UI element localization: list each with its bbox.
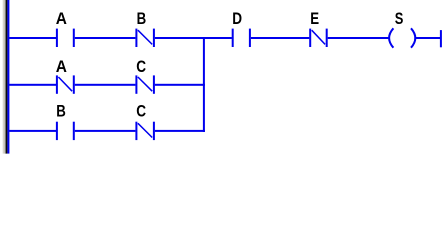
contact A (normally closed) rung2 [56, 57, 75, 94]
left frame light edge [3, 0, 5, 154]
wire rung1 rail to contact A [9, 37, 56, 39]
svg-text:C: C [136, 57, 146, 76]
right power rail stub [440, 30, 442, 47]
wire contact A to contact C rung2 [75, 84, 136, 86]
svg-text:S: S [395, 9, 404, 28]
wire contact A to contact B rung1 [75, 37, 136, 39]
wire contact D to contact E rung1 [251, 37, 309, 39]
contact A (normally open) rung1 [56, 9, 75, 47]
contact C (normally closed) rung2 [135, 57, 155, 93]
left frame shade edge [4, 0, 7, 154]
contact B (normally closed) rung1 [135, 10, 155, 47]
wire contact C to branch junction rung2 [155, 84, 205, 86]
wire rung2 rail to contact A [9, 84, 56, 86]
svg-text:D: D [232, 10, 242, 29]
left power rail [7, 0, 9, 154]
contact B (normally open) rung3 [56, 102, 75, 140]
contact D (normally open) rung1 [232, 10, 251, 47]
left frame dark edge [6, 0, 7, 154]
contact E (normally closed) rung1 [309, 10, 328, 47]
svg-text:C: C [136, 102, 146, 121]
wire contact B to contact D rung1 [155, 37, 232, 39]
svg-text:B: B [137, 10, 147, 29]
left frame mid edge [5, 0, 6, 154]
wire coil S to right rail [416, 37, 440, 39]
svg-text:A: A [56, 57, 67, 76]
branch junction vertical wire [203, 37, 205, 132]
wire rung3 rail to contact B [9, 130, 56, 132]
output coil S [389, 9, 415, 47]
wire contact E to coil S [328, 37, 390, 39]
svg-text:A: A [56, 9, 67, 28]
svg-text:E: E [310, 10, 319, 29]
wire contact B to contact C rung3 [75, 130, 136, 132]
contact C (normally closed) rung3 [135, 102, 155, 140]
svg-text:B: B [56, 102, 66, 121]
wire contact C to branch junction rung3 [155, 130, 205, 132]
